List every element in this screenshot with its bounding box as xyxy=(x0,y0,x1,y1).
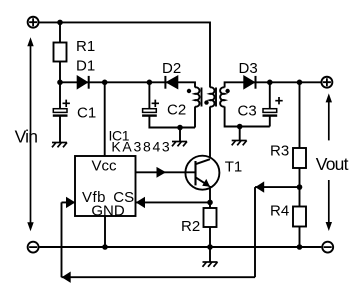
transformer aux winding xyxy=(195,87,199,106)
wire Vcc column xyxy=(104,82,106,156)
ground below C2 xyxy=(172,142,187,147)
wire main left horizontal xyxy=(60,82,195,87)
node Vcc xyxy=(102,80,108,86)
node GND rail xyxy=(102,244,108,250)
transformer TR primary winding xyxy=(210,87,214,106)
diode D1 xyxy=(77,76,89,89)
transformer core line 1 xyxy=(201,88,203,107)
capacitor C2 xyxy=(142,100,159,116)
node R4 rail xyxy=(297,244,303,250)
node R3 top xyxy=(297,80,303,86)
capacitor C3 xyxy=(263,97,283,116)
wire C1 column xyxy=(59,82,61,142)
resistor R2 xyxy=(204,208,217,227)
svg-text:T1: T1 xyxy=(225,158,243,175)
svg-text:D1: D1 xyxy=(76,57,95,74)
Vout arrow lower xyxy=(326,180,332,231)
wire C2 column xyxy=(149,82,195,127)
wire R3 column xyxy=(299,82,301,187)
svg-text:D3: D3 xyxy=(239,60,258,77)
T1 emitter arrow xyxy=(202,179,210,187)
arrow CS pin xyxy=(136,197,145,208)
wire feedback down xyxy=(254,187,256,277)
wire primary collector column xyxy=(209,107,211,158)
svg-text:R1: R1 xyxy=(76,38,95,55)
wire ground3 stem xyxy=(239,127,241,141)
arrow feedback corner right xyxy=(255,181,264,192)
svg-text:C1: C1 xyxy=(77,104,96,121)
terminal input minus xyxy=(28,242,39,253)
diode D2 xyxy=(165,76,177,89)
arrow Vfb pin xyxy=(66,197,75,208)
svg-text:GND: GND xyxy=(91,202,125,219)
resistor R3 xyxy=(293,148,306,168)
capacitor C1 xyxy=(53,100,70,116)
wire feedback up to Vfb xyxy=(62,202,76,277)
node rail-R1 xyxy=(57,20,63,26)
svg-text:Vcc: Vcc xyxy=(92,158,118,175)
wire OUT to base xyxy=(136,171,196,173)
transistor T1 xyxy=(185,156,219,203)
node ground3 xyxy=(237,124,243,130)
terminal output plus xyxy=(321,77,332,88)
Vout arrow upper xyxy=(326,93,332,140)
node C3 top xyxy=(267,80,273,86)
arrow feedback corner left xyxy=(62,272,71,283)
IC1 box xyxy=(75,156,136,216)
node ground2 xyxy=(177,125,183,131)
ground below C3 xyxy=(232,141,247,146)
wire C3 column xyxy=(269,82,271,126)
wire top rail xyxy=(39,22,210,87)
phase dot aux xyxy=(187,89,191,93)
wire CS from emitter xyxy=(136,201,211,203)
wire bottom rail xyxy=(39,246,321,248)
ground below C1 xyxy=(52,143,67,148)
transformer secondary winding xyxy=(220,87,224,106)
resistor R4 xyxy=(293,207,306,227)
diode D3 xyxy=(244,76,256,89)
arrow OUT pin xyxy=(157,167,167,178)
node D1 anode xyxy=(57,80,63,86)
wire R2 column xyxy=(209,202,211,247)
wire feedback bottom xyxy=(62,276,256,278)
wire ground2 stem xyxy=(179,128,181,142)
resistor R1 xyxy=(54,43,67,62)
svg-text:R4: R4 xyxy=(270,202,289,219)
node R2 rail xyxy=(207,244,213,250)
node emitter-CS xyxy=(207,200,213,206)
svg-text:R2: R2 xyxy=(181,218,200,235)
phase dot secondary xyxy=(225,89,229,93)
svg-text:C3: C3 xyxy=(238,103,257,120)
wire ground5 stem xyxy=(209,247,211,262)
svg-text:D2: D2 xyxy=(162,60,181,77)
terminal output minus xyxy=(322,242,333,253)
wire R1 column xyxy=(59,22,61,82)
svg-text:KA3843: KA3843 xyxy=(111,139,171,155)
node R3-R4 xyxy=(297,184,303,190)
wire secondary bottom xyxy=(225,107,270,127)
svg-text:Vin: Vin xyxy=(15,127,38,147)
wire R4 column xyxy=(299,187,301,247)
svg-text:R3: R3 xyxy=(270,142,289,159)
svg-text:C2: C2 xyxy=(167,102,186,119)
phase dot primary xyxy=(204,100,208,104)
wire IC GND column xyxy=(104,216,106,247)
ground below R2 xyxy=(203,262,218,267)
svg-text:Vout: Vout xyxy=(316,154,349,174)
node C2 top xyxy=(147,80,153,86)
Vin arrow double xyxy=(27,37,33,231)
wire feedback horizontal xyxy=(255,186,300,188)
terminal input plus xyxy=(28,17,39,28)
wire secondary top xyxy=(225,82,322,87)
transformer core line 2 xyxy=(215,88,217,107)
